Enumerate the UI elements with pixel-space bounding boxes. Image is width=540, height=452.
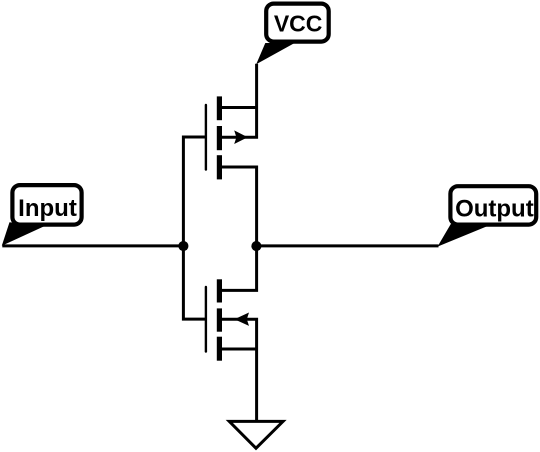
svg-text:Output: Output [455,196,534,223]
svg-text:VCC: VCC [274,11,323,37]
svg-text:Input: Input [18,195,77,222]
